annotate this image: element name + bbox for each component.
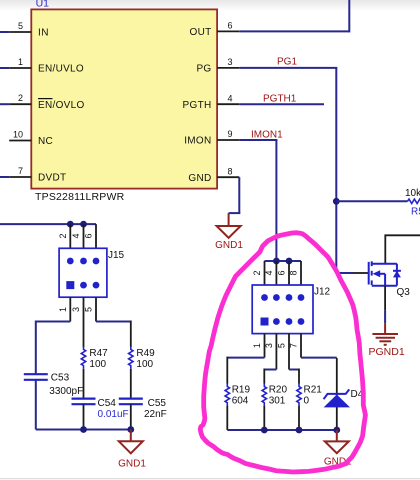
- wire net IMON1 horizontal: [239, 139, 277, 141]
- svg-text:22nF: 22nF: [144, 409, 167, 420]
- Q3 body arrow: [373, 270, 381, 277]
- J12 pin 1 square: [261, 318, 269, 326]
- wire C53 to rail: [35, 380, 37, 430]
- wire J12 pin3 jog to R20: [264, 369, 276, 371]
- resistor R19: [225, 384, 229, 406]
- svg-text:9: 9: [228, 129, 233, 139]
- svg-text:GND1: GND1: [118, 458, 146, 469]
- svg-text:R49: R49: [136, 348, 155, 359]
- svg-text:4: 4: [264, 270, 274, 275]
- op-amp U1 body: [31, 9, 217, 188]
- wire R21 to rail: [298, 406, 300, 430]
- wire net EN/UVLO: [0, 67, 9, 69]
- J15 pin 4 stub: [83, 224, 85, 248]
- svg-text:PG: PG: [196, 64, 211, 75]
- wire source black: [384, 286, 386, 311]
- svg-text:100: 100: [136, 359, 153, 370]
- pin 10 NC stub: [9, 140, 31, 142]
- J15 pin 3 stub: [83, 297, 85, 321]
- svg-text:1: 1: [18, 57, 23, 67]
- junction rail/R21: [296, 427, 303, 434]
- svg-text:2: 2: [18, 93, 23, 103]
- svg-text:7: 7: [18, 166, 23, 176]
- svg-text:EN/OVLO: EN/OVLO: [38, 100, 85, 111]
- junction on J12 pin 4: [273, 258, 280, 265]
- ground GND1 under IC: [217, 213, 241, 238]
- J15 pin 6 stub: [95, 224, 97, 248]
- svg-text:100: 100: [89, 359, 106, 370]
- wire net PG1 horizontal: [239, 67, 337, 69]
- pin 8 GND stub: [217, 176, 239, 178]
- connector J12 body: [252, 285, 313, 334]
- svg-text:8: 8: [228, 166, 233, 176]
- wire J12 pin1 jog to R19: [227, 357, 264, 359]
- pin 1 EN/UVLO stub: [9, 67, 31, 69]
- svg-text:10: 10: [13, 130, 23, 140]
- J12 pin 6 stub: [288, 261, 290, 285]
- pin 7 DVDT stub: [9, 176, 31, 178]
- svg-text:301: 301: [269, 395, 286, 406]
- J12 pin 3 stub: [275, 334, 277, 370]
- svg-text:PGTH1: PGTH1: [263, 94, 297, 105]
- junction rail/R49: [127, 426, 134, 433]
- svg-text:3300pF: 3300pF: [49, 386, 83, 397]
- wire J15 ground rail: [36, 429, 131, 431]
- svg-text:C53: C53: [51, 372, 70, 383]
- wire net PG1 vertical down: [335, 68, 337, 273]
- svg-text:PG1: PG1: [277, 57, 297, 68]
- svg-text:NC: NC: [38, 136, 53, 147]
- svg-text:C55: C55: [148, 398, 167, 409]
- Q3 gate stub: [353, 272, 369, 274]
- wire R47 to C54: [83, 369, 85, 399]
- J12 bottom row pins: [273, 318, 280, 325]
- svg-text:IMON1: IMON1: [251, 129, 283, 140]
- junction on J12 pin 6: [286, 258, 293, 265]
- svg-text:IMON: IMON: [184, 136, 211, 147]
- junction node PG1/R5x: [333, 198, 340, 205]
- J15 pin 1 square: [66, 281, 74, 289]
- wire source navy: [384, 311, 386, 324]
- wire gate horizontal: [336, 272, 353, 274]
- J12 pin 4 stub: [275, 261, 277, 285]
- wire net IN: [0, 31, 9, 33]
- svg-text:R47: R47: [89, 348, 108, 359]
- svg-text:5: 5: [84, 307, 94, 312]
- wire bus to J15: [0, 223, 96, 225]
- svg-text:4: 4: [228, 93, 233, 103]
- svg-text:GND: GND: [188, 173, 211, 184]
- capacitor C54: [72, 399, 96, 405]
- wire bus above J12: [265, 260, 302, 262]
- resistor R56 partial at edge: [408, 199, 420, 203]
- Q3 body diode triangle: [393, 271, 401, 278]
- svg-text:3: 3: [228, 57, 233, 67]
- connector J15 body: [59, 248, 107, 297]
- svg-text:PGTH: PGTH: [183, 100, 212, 111]
- J12 pin 8 stub: [300, 261, 302, 285]
- svg-text:10k: 10k: [405, 188, 420, 199]
- wire J15 pin5 jog to R49: [96, 321, 131, 323]
- junction rail/R20: [261, 427, 268, 434]
- wire net DVDT: [0, 176, 9, 178]
- wire C54 to rail: [83, 404, 85, 429]
- svg-text:5: 5: [277, 343, 287, 348]
- J15 top row pins: [67, 258, 74, 265]
- pin 2 EN/OVLO stub: [9, 103, 31, 105]
- wire J12 pin7 jog to D4: [301, 357, 337, 359]
- wire R49 to C55: [130, 369, 132, 399]
- annotation pink blob: [200, 233, 365, 472]
- svg-text:PGND1: PGND1: [369, 346, 405, 358]
- bottom window edge line: [0, 478, 420, 480]
- svg-text:R20: R20: [269, 384, 288, 395]
- svg-text:4: 4: [71, 233, 81, 238]
- pin 3 PG stub: [217, 67, 239, 69]
- svg-text:TPS22811LRPWR: TPS22811LRPWR: [35, 191, 125, 203]
- J12 pin 5 stub: [288, 334, 290, 370]
- svg-text:EN/UVLO: EN/UVLO: [38, 64, 84, 75]
- svg-text:8: 8: [289, 270, 299, 275]
- pin 4 PGTH stub: [217, 103, 239, 105]
- svg-text:GND1: GND1: [215, 240, 243, 251]
- svg-text:3: 3: [71, 307, 81, 312]
- svg-text:R21: R21: [304, 384, 323, 395]
- wire drain top: [385, 235, 420, 263]
- svg-text:0.01uF: 0.01uF: [98, 409, 129, 420]
- resistor R49: [129, 346, 133, 368]
- svg-text:C54: C54: [98, 398, 117, 409]
- wire R20 to rail: [263, 406, 265, 430]
- J12 pin 7 stub: [300, 334, 302, 358]
- svg-text:U1: U1: [36, 0, 50, 10]
- ground GND1 under D4: [325, 430, 349, 453]
- svg-text:IN: IN: [38, 28, 49, 39]
- svg-text:DVDT: DVDT: [38, 173, 66, 184]
- capacitor C55: [119, 399, 143, 405]
- ground GND1 under J15: [119, 430, 143, 454]
- wire net OUT horizontal: [239, 30, 349, 32]
- wire J12 ground rail: [227, 429, 336, 431]
- svg-text:Q3: Q3: [397, 287, 411, 298]
- wire J15 pin1 jog to C53: [36, 322, 71, 375]
- wire D4 lead: [336, 358, 338, 430]
- svg-text:0: 0: [304, 395, 310, 406]
- wire GND horizontal: [229, 212, 241, 214]
- wire to R5x: [336, 200, 407, 202]
- wire net IMON1 vertical down to J12: [275, 140, 277, 261]
- wire J12 pin5 jog to R21: [289, 369, 299, 371]
- zener diode D4: [324, 389, 350, 407]
- capacitor C53: [24, 374, 48, 380]
- svg-text:1: 1: [252, 343, 262, 348]
- wire C55 to rail: [130, 404, 132, 429]
- J15 pin 5 stub: [95, 297, 97, 321]
- svg-text:5: 5: [18, 21, 23, 31]
- pin 5 IN stub: [9, 31, 31, 33]
- svg-text:6: 6: [228, 21, 233, 31]
- wire net OUT vertical to top edge: [348, 0, 350, 32]
- svg-text:6: 6: [84, 233, 94, 238]
- resistor R47: [81, 346, 85, 368]
- junction on J15 pin 2: [67, 221, 74, 228]
- ground PGND1: [372, 323, 398, 345]
- J15 bottom row pins: [80, 282, 87, 289]
- svg-text:OUT: OUT: [189, 27, 211, 38]
- J12 pin 2 stub: [264, 261, 266, 285]
- wire R19 to rail: [226, 406, 228, 430]
- svg-text:7: 7: [289, 343, 299, 348]
- pin 6 OUT stub: [217, 30, 239, 32]
- svg-text:R56: R56: [411, 207, 420, 218]
- transistor Q3: [369, 261, 401, 285]
- resistor R21: [297, 384, 301, 406]
- junction rail/R47: [80, 426, 87, 433]
- pin 9 IMON stub: [217, 139, 239, 141]
- svg-text:J15: J15: [108, 250, 125, 261]
- J15 pin 2 stub: [69, 224, 71, 248]
- svg-text:6: 6: [277, 270, 287, 275]
- svg-text:1: 1: [58, 307, 68, 312]
- svg-text:R19: R19: [232, 384, 251, 395]
- junction on J15 pin 4: [80, 221, 87, 228]
- wire GND vertical: [238, 177, 240, 213]
- resistor R20: [262, 384, 266, 406]
- svg-text:J12: J12: [314, 287, 331, 298]
- J12 pin 1 stub: [264, 334, 266, 358]
- svg-text:2: 2: [58, 233, 68, 238]
- junction rail/D4: [333, 427, 340, 434]
- wire net PGTH1: [239, 103, 324, 105]
- wire net EN/OVLO: [0, 103, 9, 105]
- wire J15 pin3 to R47: [83, 322, 85, 348]
- J15 pin 1 stub: [69, 297, 71, 321]
- svg-text:3: 3: [264, 343, 274, 348]
- svg-text:604: 604: [232, 395, 249, 406]
- J12 top row pins: [261, 294, 268, 301]
- svg-text:2: 2: [252, 270, 262, 275]
